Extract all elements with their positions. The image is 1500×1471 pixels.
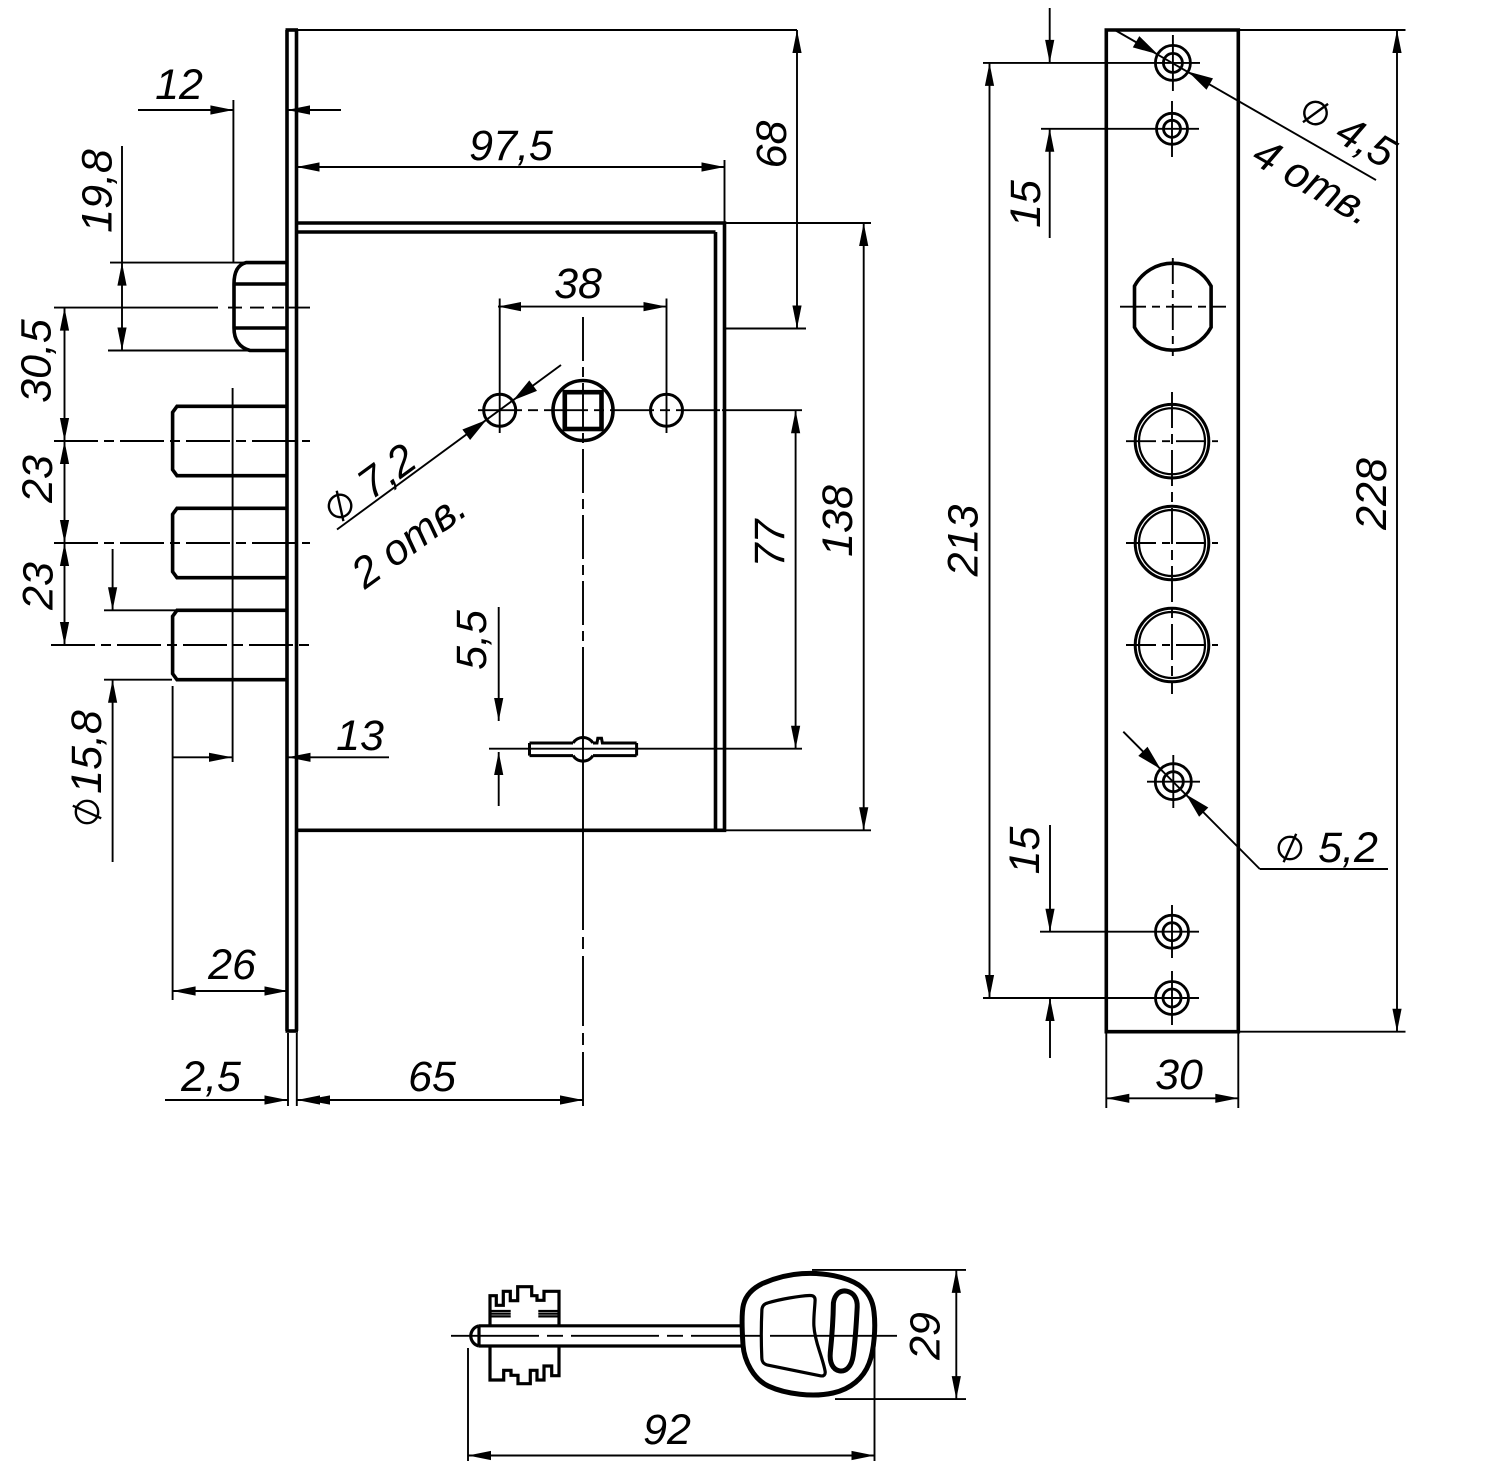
deadbolt B2 (side view) [173,508,287,577]
svg-text:77: 77 [746,518,794,568]
dimension 2,5 (faceplate thickness) [165,1033,350,1106]
leader diameter 4,5 / 4 holes [1114,30,1405,236]
bolt hole 2 horizontal centreline [1126,542,1218,544]
cam hole crosshair [1120,258,1226,356]
bolt hole 3 (front view) [1135,608,1209,682]
deadbolt B2 centreline [54,542,310,544]
dimension 213 (screw centres) [940,63,994,998]
svg-text:15: 15 [1001,826,1049,875]
svg-text:19,8: 19,8 [74,149,122,233]
screw hole bottom 1 (4.5 mm countersunk) [1156,915,1189,948]
bolt holes vertical centreline [1171,392,1173,694]
svg-text:68: 68 [748,121,796,169]
svg-text:65: 65 [408,1053,457,1101]
latch bolt (top, side view) [234,263,287,351]
dimension 38 (hub holes spacing) [498,260,667,433]
deadbolt B3 (side view) [173,610,287,679]
key tip (rounded) [471,1326,479,1347]
key shaft [479,1326,742,1346]
key bit upper grooves [490,1311,558,1316]
svg-text:13: 13 [336,712,384,760]
svg-text:15,8: 15,8 [63,710,111,794]
key axis centreline [451,1335,897,1337]
dimension 23 (bolt 1 to bolt 2) [14,441,69,543]
screw hole top 2 (4.5 mm countersunk) [1157,113,1188,144]
faceplate (side view, vertical strip) [286,30,299,1031]
key axis vertical centreline [582,317,584,1106]
svg-text:213: 213 [940,505,988,578]
key bow (handle outline) [742,1273,875,1395]
screw hole top 2 crosshair [1041,101,1199,157]
lock case outer outline [297,223,725,830]
svg-text:29: 29 [902,1312,950,1361]
svg-text:38: 38 [554,260,602,308]
dimension 97,5 (case depth) [297,122,725,223]
screw hole top 1 crosshair [983,35,1200,91]
hub row horizontal centreline [478,409,802,411]
deadbolt B1 centreline [54,440,310,442]
svg-text:23: 23 [14,455,62,504]
svg-text:12: 12 [155,61,203,109]
deadbolt B3 centreline [51,644,310,646]
spindle hub circle [553,381,613,441]
dimension 138 (case height) [726,223,871,830]
hole 5,2 mm [1155,764,1191,800]
dimension 12 (latch protrusion) [138,61,341,262]
svg-text:26: 26 [207,941,256,989]
key bow opening [761,1295,825,1375]
faceplate front view outline [1106,30,1238,1032]
screw hole top 1 (4.5 mm countersunk) [1155,45,1190,80]
dimension 92 (key length) [468,1345,875,1461]
extension line from faceplate top (ref for 68) [297,29,798,31]
screw hole bottom 1 crosshair [1040,905,1199,958]
dimension 68 (top to latch) [726,30,806,329]
keyway slot with key bit (side view) [530,737,637,761]
bolt hole 2 (front view) [1135,506,1209,580]
svg-text:228: 228 [1348,458,1396,531]
hub hole right (7.2 mm) [651,394,683,426]
svg-text:30: 30 [1155,1051,1203,1099]
deadbolt B1 (side view) [173,406,287,475]
square spindle hole [565,392,602,429]
keyway horizontal centreline [489,748,802,750]
key bit lower flag [490,1346,559,1384]
dimension 15 (top screw holes spacing) [1002,8,1054,238]
bolt hole 1 horizontal centreline [1126,440,1218,442]
dimension 65 (backset) [297,1053,583,1104]
dimension 77 (hub row to keyway) [746,410,800,749]
bolt hole 1 (front view) [1135,404,1209,478]
dimension 5,5 (keyway offset) [448,607,503,806]
svg-text:2,5: 2,5 [180,1053,242,1101]
latch centreline [54,307,310,309]
svg-text:4,5: 4,5 [1328,106,1405,178]
dimension 29 (bow height) [812,1270,966,1399]
svg-text:15: 15 [1002,179,1050,228]
lock case inner fold lines [297,232,716,830]
hole 5,2 crosshair [1147,755,1200,808]
leader diameter 5,2 [1123,732,1388,872]
dimension 23 (bolt 2 to bolt 3) [15,543,69,645]
bolt hole 3 horizontal centreline [1126,644,1218,646]
dimension 15 (bottom screw holes spacing) [1001,825,1054,1058]
dimension diameter 15,8 (bolt diameter) [63,549,177,862]
leader diameter 7,2 / 2 holes [317,365,561,599]
screw hole bottom 2 crosshair [983,971,1199,1025]
svg-text:7,2: 7,2 [349,435,426,509]
svg-text:92: 92 [643,1406,691,1454]
svg-text:23: 23 [15,562,63,611]
hub hole left (7.2 mm) [484,394,516,426]
svg-text:30,5: 30,5 [13,318,61,403]
svg-text:5,5: 5,5 [448,609,496,670]
key bow ring slot [830,1291,857,1371]
cam hole (double-D) [1135,263,1212,350]
dimension 26 (bolt throw) [173,686,288,1000]
dimension 30,5 (latch to bolt 1) [13,308,69,441]
dimension 228 (faceplate length) [1238,30,1405,1032]
key bit upper flag [490,1287,559,1326]
dimension 13 (bolt rear to faceplate) [172,388,389,762]
svg-text:138: 138 [814,485,862,557]
svg-text:5,2: 5,2 [1318,824,1378,872]
dimension 30 (faceplate width) [1106,1032,1238,1108]
svg-text:97,5: 97,5 [469,122,554,170]
dimension 19,8 (latch height) [74,146,250,351]
svg-text:2 отв.: 2 отв. [342,482,476,598]
screw hole bottom 2 (4.5 mm countersunk) [1156,982,1189,1015]
